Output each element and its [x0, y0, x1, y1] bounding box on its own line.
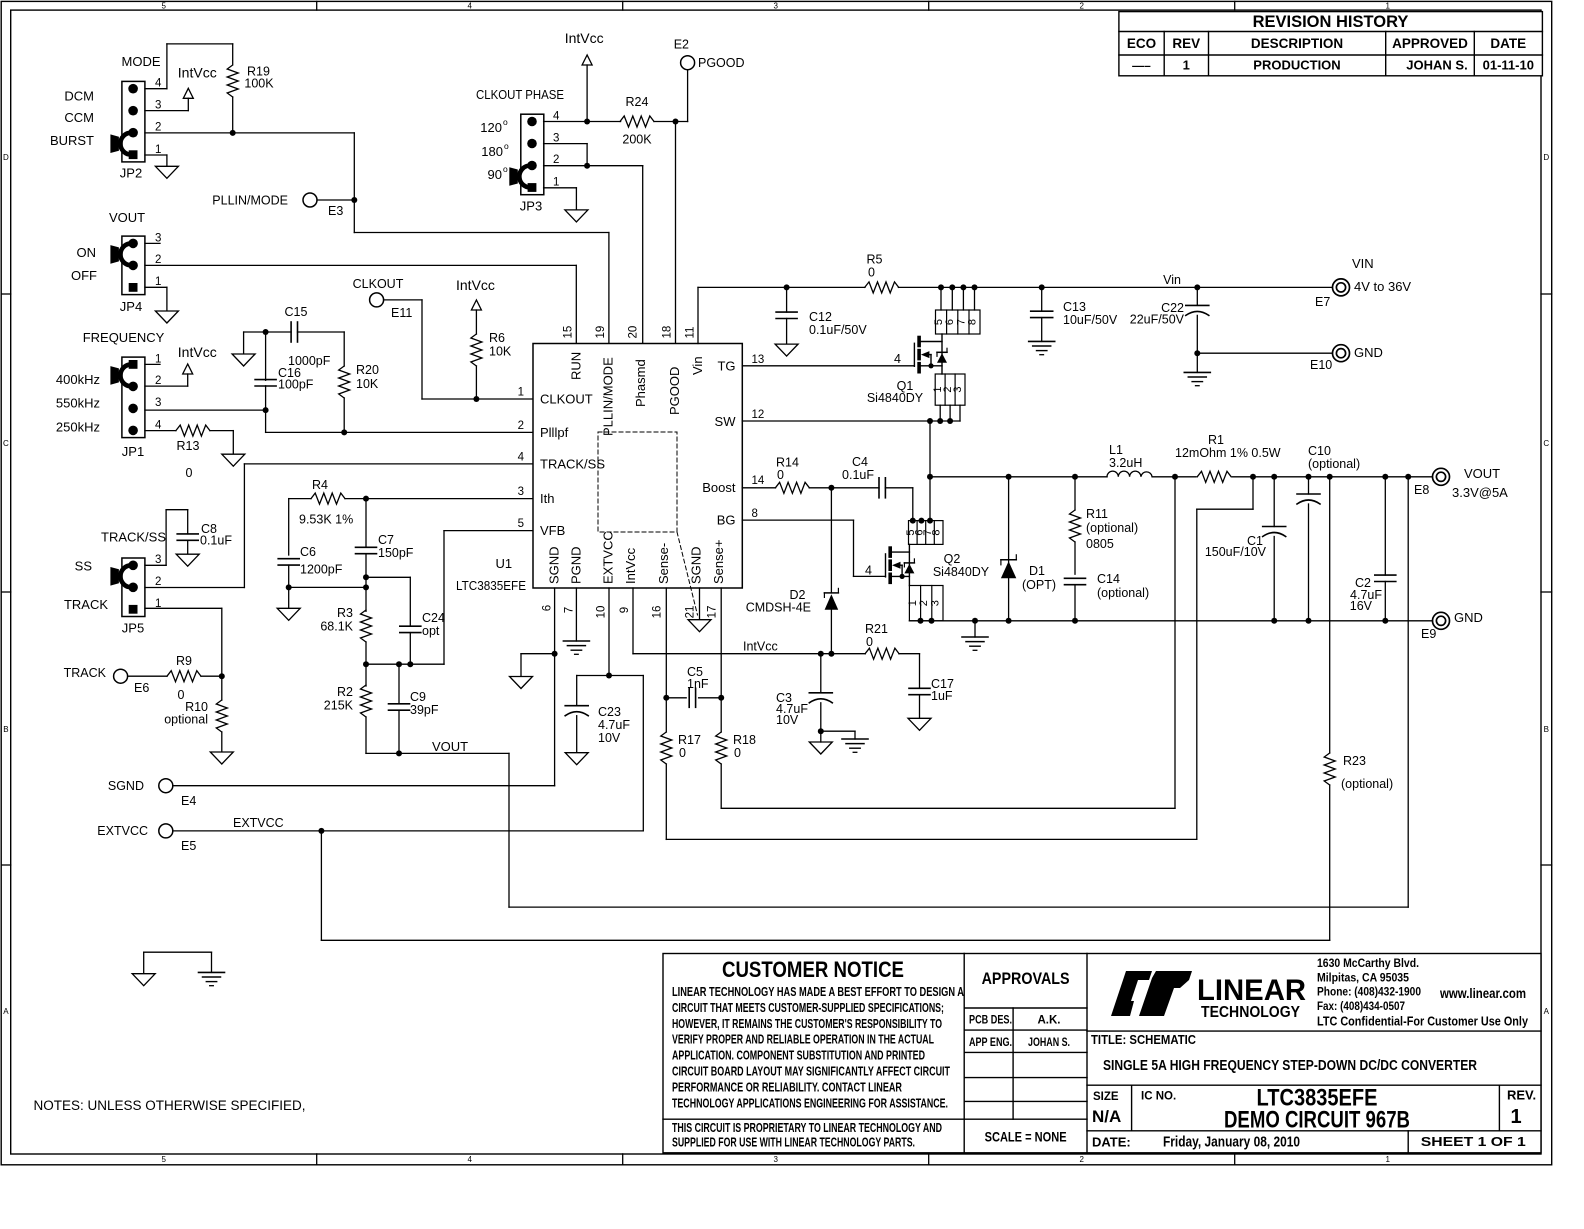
svg-text:100K: 100K [244, 77, 274, 91]
svg-text:1: 1 [155, 144, 161, 156]
svg-text:CIRCUIT THAT MEETS CUSTOMER-SU: CIRCUIT THAT MEETS CUSTOMER-SUPPLIED SPE… [672, 1000, 944, 1015]
op-amp U1 LTC3835EFE (controller IC) [456, 326, 765, 619]
ground at SGND [510, 677, 533, 689]
svg-text:C7: C7 [378, 533, 394, 547]
junction R24/PGOOD [673, 119, 679, 125]
ground at JP4 pin1 [155, 311, 178, 323]
svg-text:JP4: JP4 [120, 299, 142, 314]
ground tie symbol [132, 952, 224, 986]
terminal E7 VIN [1315, 256, 1411, 309]
revision history table [1119, 12, 1543, 76]
svg-text:Plllpf: Plllpf [540, 425, 569, 440]
svg-text:4: 4 [553, 110, 560, 122]
wire R6 to CLKOUT net [475, 366, 477, 399]
svg-text:9.53K 1%: 9.53K 1% [299, 513, 353, 527]
svg-text:SHEET 1 OF 1: SHEET 1 OF 1 [1421, 1134, 1526, 1149]
svg-text:1: 1 [1510, 1106, 1521, 1128]
junction R6/CLKOUT [473, 396, 479, 402]
svg-text:R2: R2 [337, 685, 353, 699]
wire U1 Sense- pin 16 [665, 588, 667, 732]
svg-text:LTC3835EFE: LTC3835EFE [456, 578, 526, 593]
junction Boost/D2 [828, 485, 834, 491]
svg-text:0: 0 [777, 468, 784, 482]
wire U1 TG pin 13 to Q1 gate [742, 365, 914, 367]
wire JP1 pin1 stub [145, 363, 160, 365]
junction earth at PGND rail [972, 618, 978, 624]
svg-text:LINEAR TECHNOLOGY HAS MADE A B: LINEAR TECHNOLOGY HAS MADE A BEST EFFORT… [672, 984, 964, 999]
junction R11/C14 bottom [1072, 618, 1078, 624]
svg-text:C13: C13 [1063, 300, 1086, 314]
wire U1 EXTVCC pin 10 [608, 588, 610, 676]
svg-text:E9: E9 [1421, 627, 1436, 641]
capacitor C17 1uF [909, 677, 954, 718]
svg-text:3: 3 [773, 1155, 778, 1164]
resistor R1 12mOhm 1% 0.5W [1175, 433, 1281, 482]
junction SW [927, 418, 933, 424]
wire R14 to C4 [809, 487, 879, 489]
svg-text:39pF: 39pF [410, 703, 439, 717]
svg-text:(optional): (optional) [1308, 457, 1360, 471]
svg-text:BG: BG [717, 513, 736, 528]
connector JP2 (MODE) [50, 54, 162, 181]
svg-text:4.7uF: 4.7uF [598, 718, 630, 732]
svg-text:REV.: REV. [1507, 1087, 1536, 1102]
svg-text:16: 16 [652, 606, 664, 619]
ground at JP3 pin1 [565, 210, 588, 222]
svg-text:VOUT: VOUT [1464, 466, 1500, 481]
svg-text:EXTVCC: EXTVCC [601, 531, 616, 584]
junction R19/MODE [230, 130, 236, 136]
svg-text:Milpitas, CA 95035: Milpitas, CA 95035 [1317, 970, 1409, 984]
svg-text:VOUT: VOUT [432, 739, 468, 754]
wire JP2 pin3 to IntVcc [145, 110, 188, 112]
junction Sense- jog [1250, 474, 1256, 480]
svg-text:PGOOD: PGOOD [698, 56, 745, 70]
wire U1 SGND pin 6 [554, 588, 556, 786]
svg-text:20: 20 [628, 326, 640, 339]
svg-text:16V: 16V [1350, 599, 1373, 613]
svg-text:E6: E6 [134, 681, 149, 695]
ground at C15 left [232, 354, 255, 366]
svg-text:o: o [504, 141, 509, 151]
svg-text:21: 21 [685, 606, 697, 619]
wire E3 to MODE net [317, 199, 354, 201]
IntVcc symbol above R6 [456, 277, 495, 334]
junction E10 branch [1194, 350, 1200, 356]
svg-text:JOHAN S.: JOHAN S. [1028, 1037, 1070, 1049]
wire VOUT sense to output rail [399, 752, 509, 754]
svg-text:C24: C24 [422, 611, 445, 625]
svg-text:TITLE: SCHEMATIC: TITLE: SCHEMATIC [1091, 1032, 1197, 1047]
junction SGND arrow branch [552, 651, 558, 657]
junction C16 top [263, 329, 269, 335]
svg-text:SIZE: SIZE [1093, 1091, 1119, 1103]
wire R4 left to C6 [289, 498, 311, 500]
wire U1 Sense+ pin 17 [720, 588, 722, 732]
junction C3 ground node [818, 728, 824, 734]
svg-text:3: 3 [155, 397, 161, 409]
svg-text:10V: 10V [598, 731, 621, 745]
wire U1 Vin pin 11 to VIN rail [697, 287, 699, 343]
wire JP4 pin1 to ground [145, 286, 167, 288]
svg-text:12: 12 [752, 409, 765, 421]
wire JP4 pin3 stub [145, 242, 160, 244]
EXTVCC branch rail [577, 675, 644, 677]
wire C8 to ground [187, 540, 189, 554]
svg-text:VFB: VFB [540, 523, 565, 538]
svg-text:0805: 0805 [1086, 537, 1114, 551]
svg-text:12mOhm 1% 0.5W: 12mOhm 1% 0.5W [1175, 446, 1281, 460]
earth ground at C13 [1029, 340, 1055, 342]
ground at C8 [176, 554, 199, 566]
wire E5 EXTVCC rail [173, 830, 644, 832]
svg-text:TRACK/SS: TRACK/SS [540, 456, 605, 471]
svg-text:BURST: BURST [50, 133, 94, 148]
IntVcc symbol at JP2 pin3 [178, 65, 217, 111]
svg-text:E7: E7 [1315, 295, 1330, 309]
junction D1 [1006, 474, 1012, 480]
svg-text:0: 0 [186, 466, 193, 480]
svg-text:Vin: Vin [690, 356, 705, 375]
svg-text:15: 15 [563, 326, 575, 339]
junction Sense+ branch [1172, 474, 1178, 480]
svg-text:0.1uF: 0.1uF [842, 468, 874, 482]
svg-text:(optional): (optional) [1086, 521, 1138, 535]
svg-text:6: 6 [542, 605, 554, 611]
capacitor C16 100pF [255, 332, 314, 432]
resistor R10 optional [164, 676, 227, 732]
wire to E10 [1197, 352, 1332, 354]
svg-text:C14: C14 [1097, 572, 1120, 586]
wire R10 to ground [221, 732, 223, 752]
svg-text:2: 2 [155, 121, 161, 133]
svg-text:DATE: DATE [1490, 36, 1526, 51]
capacitor C2 4.7uF 16V [1350, 477, 1396, 621]
capacitor C9 39pF [389, 664, 439, 753]
svg-text:68.1K: 68.1K [320, 620, 353, 634]
junction C22 [1194, 284, 1200, 290]
svg-text:E10: E10 [1310, 358, 1332, 372]
svg-text:TG: TG [717, 359, 735, 374]
svg-text:R9: R9 [176, 654, 192, 668]
svg-text:SGND: SGND [689, 546, 704, 584]
wire R17 to Sense- rail [665, 764, 667, 839]
svg-text:JP3: JP3 [520, 199, 542, 214]
svg-text:B: B [1544, 725, 1549, 734]
svg-text:Phone: (408)432-1900: Phone: (408)432-1900 [1317, 985, 1421, 999]
svg-text:HOWEVER, IT REMAINS THE CUSTOM: HOWEVER, IT REMAINS THE CUSTOMER'S RESPO… [672, 1016, 942, 1031]
svg-text:4: 4 [467, 1, 472, 10]
svg-text:IntVcc: IntVcc [623, 547, 638, 584]
junction C1 [1271, 474, 1277, 480]
svg-text:TRACK: TRACK [64, 666, 107, 680]
wire C4 to SW [885, 487, 912, 489]
svg-text:2: 2 [1079, 1155, 1084, 1164]
svg-text:1: 1 [1385, 1, 1390, 10]
svg-text:(OPT): (OPT) [1022, 578, 1056, 592]
svg-text:TECHNOLOGY: TECHNOLOGY [1201, 1004, 1301, 1021]
svg-text:1200pF: 1200pF [300, 563, 343, 577]
svg-text:JP1: JP1 [122, 444, 144, 459]
wire R24 to E2/PGOOD [654, 121, 688, 123]
svg-text:N/A: N/A [1092, 1107, 1121, 1126]
svg-text:Sense-: Sense- [656, 543, 671, 584]
resistor R19 100K [227, 65, 274, 98]
ground at R13 [222, 454, 245, 466]
svg-text:IntVcc: IntVcc [565, 30, 604, 46]
wire R18 to Sense+ rail [720, 764, 722, 808]
svg-text:5: 5 [518, 518, 524, 530]
svg-text:SUPPLIED FOR USE WITH LINEAR T: SUPPLIED FOR USE WITH LINEAR TECHNOLOGY … [672, 1134, 915, 1149]
svg-text:IntVcc: IntVcc [743, 640, 778, 654]
svg-text:13: 13 [752, 354, 765, 366]
wire R23 branch [1329, 477, 1331, 753]
svg-text:R17: R17 [678, 733, 701, 747]
svg-text:SGND: SGND [108, 779, 144, 793]
svg-text:4: 4 [894, 352, 901, 366]
svg-text:JP2: JP2 [120, 166, 142, 181]
transistor Q1 Si4840DY (top MOSFET) [867, 284, 980, 421]
svg-text:C: C [3, 439, 9, 448]
ground at R10 [210, 752, 233, 764]
wire C15 left / ground branch [244, 331, 292, 333]
svg-text:Si4840DY: Si4840DY [933, 565, 990, 579]
svg-text:SCALE = NONE: SCALE = NONE [985, 1129, 1067, 1145]
wire C6 bottom [288, 565, 290, 608]
resistor R20 10K [339, 363, 379, 398]
svg-text:0.1uF/50V: 0.1uF/50V [809, 323, 867, 337]
wire TRACK/SS to C8 [145, 564, 166, 566]
junction IntVcc at JP3 pin4 [584, 119, 590, 125]
terminal E11 CLKOUT [353, 277, 413, 320]
wire L1 to R1 [1152, 476, 1196, 478]
svg-text:4: 4 [155, 78, 162, 90]
svg-text:11: 11 [685, 327, 697, 339]
svg-text:250kHz: 250kHz [56, 420, 100, 435]
junction Ith/C7 [363, 496, 369, 502]
svg-text:1: 1 [553, 177, 559, 189]
diode D2 CMDSH-4E [746, 488, 839, 654]
svg-text:D1: D1 [1029, 564, 1045, 578]
svg-text:3: 3 [553, 132, 559, 144]
svg-text:3: 3 [952, 387, 964, 393]
svg-text:o: o [503, 164, 508, 174]
svg-text:LTC Confidential-For Customer: LTC Confidential-For Customer Use Only [1317, 1014, 1529, 1029]
inductor L1 3.2uH [1107, 443, 1152, 477]
svg-text:R11: R11 [1086, 507, 1108, 521]
svg-text:7: 7 [564, 607, 576, 613]
resistor R21 0 [865, 622, 899, 659]
capacitor C6 1200pF [278, 545, 343, 577]
svg-text:Fax: (408)434-0507: Fax: (408)434-0507 [1317, 999, 1405, 1013]
wire Sense- jog [1252, 477, 1254, 509]
svg-text:18: 18 [662, 326, 674, 339]
wire R2 bottom to VOUT node [365, 717, 367, 753]
svg-text:TRACK: TRACK [64, 597, 108, 612]
capacitor C23 4.7uF 10V [565, 676, 630, 753]
svg-text:400kHz: 400kHz [56, 372, 100, 387]
svg-text:DESCRIPTION: DESCRIPTION [1251, 36, 1343, 51]
connector JP4 (VOUT on/off) [71, 210, 161, 314]
junction R3/VFB [363, 661, 369, 667]
svg-text:A.K.: A.K. [1038, 1015, 1061, 1027]
svg-text:www.linear.com: www.linear.com [1439, 986, 1526, 1001]
svg-text:Vin: Vin [1163, 273, 1181, 287]
svg-text:APP ENG.: APP ENG. [969, 1037, 1012, 1049]
junction JP3 pins 2/3 [584, 163, 590, 169]
wire R9 to node [201, 675, 222, 677]
svg-text:IC NO.: IC NO. [1141, 1090, 1176, 1102]
svg-text:215K: 215K [324, 699, 354, 713]
svg-text:1uF: 1uF [931, 689, 953, 703]
svg-text:0: 0 [734, 746, 741, 760]
wire R4 right to U1 Ith pin 3 [345, 498, 533, 500]
svg-text:CUSTOMER NOTICE: CUSTOMER NOTICE [722, 957, 904, 982]
earth ground at C3 [842, 738, 868, 740]
wire E4 to U1 SGND [173, 785, 555, 787]
svg-text:10: 10 [596, 606, 608, 619]
svg-text:TRACK/SS: TRACK/SS [101, 530, 166, 545]
svg-text:4: 4 [155, 420, 162, 432]
wire C6 node to R3 chain [289, 586, 366, 588]
capacitor C1 150uF/10V [1205, 477, 1286, 621]
svg-text:CLKOUT: CLKOUT [353, 277, 404, 291]
svg-text:3: 3 [518, 486, 524, 498]
junction SW rail [927, 474, 933, 480]
svg-text:Friday, January 08, 2010: Friday, January 08, 2010 [1163, 1134, 1300, 1151]
junction Q2 source pins [918, 618, 924, 624]
svg-text:C12: C12 [809, 310, 832, 324]
capacitor C4 0.1uF [842, 455, 885, 498]
svg-text:150pF: 150pF [378, 546, 414, 560]
svg-text:90: 90 [488, 167, 502, 182]
earth ground at PGND pin [563, 640, 589, 642]
junction C6/ground rail [286, 584, 292, 590]
svg-text:1: 1 [1183, 58, 1190, 73]
svg-text:CLKOUT PHASE: CLKOUT PHASE [476, 87, 564, 102]
svg-text:3.2uH: 3.2uH [1109, 456, 1142, 470]
wire U1 PGND pin 7 to earth [575, 588, 577, 641]
capacitor C12 0.1uF/50V [776, 287, 867, 344]
svg-text:5: 5 [161, 1, 166, 10]
svg-text:VOUT: VOUT [109, 210, 145, 225]
junction C9/VFB [396, 661, 402, 667]
svg-text:CMDSH-4E: CMDSH-4E [746, 601, 811, 615]
svg-text:MODE: MODE [122, 54, 161, 69]
junction C3 [818, 651, 824, 657]
svg-text:E11: E11 [391, 306, 412, 320]
junction JP1 pin3 / C16 [263, 407, 269, 413]
svg-text:2: 2 [155, 254, 161, 266]
svg-text:PRODUCTION: PRODUCTION [1253, 58, 1340, 73]
wire R23 to EXTVCC rail [1329, 785, 1331, 940]
svg-text:8: 8 [931, 529, 943, 535]
resistor R18 0 [716, 732, 756, 764]
svg-text:3: 3 [155, 100, 161, 112]
svg-text:APPROVALS: APPROVALS [982, 969, 1070, 988]
ground at JP2 pin1 [155, 166, 178, 178]
svg-text:Boost: Boost [702, 480, 736, 495]
wire SW rail to L1 [930, 476, 1107, 478]
junction D2 anode [828, 651, 834, 657]
wire JP4 pin2 to U1 RUN pin 15 [145, 264, 576, 266]
svg-text:TECHNOLOGY APPLICATIONS ENGINE: TECHNOLOGY APPLICATIONS ENGINEERING FOR … [672, 1095, 948, 1110]
svg-text:14: 14 [752, 475, 765, 487]
svg-text:R3: R3 [337, 606, 353, 620]
svg-text:VERIFY PROPER AND RELIABLE OPE: VERIFY PROPER AND RELIABLE OPERATION IN … [672, 1032, 934, 1047]
svg-text:Phasmd: Phasmd [633, 359, 648, 407]
svg-text:200K: 200K [622, 133, 652, 147]
svg-text:ON: ON [77, 245, 97, 260]
resistor R23 optional [1324, 753, 1393, 791]
svg-text:ECO: ECO [1127, 36, 1156, 51]
svg-text:Q2: Q2 [944, 552, 961, 566]
svg-text:R1: R1 [1208, 433, 1224, 447]
svg-text:CLKOUT: CLKOUT [540, 392, 593, 407]
junction C6 branch [363, 584, 369, 590]
svg-text:4: 4 [467, 1155, 472, 1164]
diode D1 (OPT) [1001, 477, 1056, 621]
capacitor C14 optional [1065, 572, 1150, 621]
svg-text:22uF/50V: 22uF/50V [1130, 313, 1185, 327]
svg-text:JP5: JP5 [122, 621, 144, 636]
svg-text:SW: SW [715, 414, 737, 429]
PGND rail [909, 620, 1432, 622]
junction EXTVCC [606, 673, 612, 679]
junction C5 left [663, 695, 669, 701]
terminal E6 TRACK [64, 666, 150, 695]
ground at C6 [277, 608, 300, 620]
svg-text:3: 3 [155, 232, 161, 244]
wire U1 SGND pin 21 to ground [699, 588, 701, 620]
junction C2 bottom [1382, 618, 1388, 624]
svg-text:REVISION HISTORY: REVISION HISTORY [1253, 13, 1409, 31]
svg-text:4: 4 [865, 564, 872, 578]
svg-text:EXTVCC: EXTVCC [97, 824, 148, 838]
junction R23 [1327, 474, 1333, 480]
svg-text:4V to 36V: 4V to 36V [1354, 279, 1411, 294]
svg-text:180: 180 [481, 144, 503, 159]
svg-text:R18: R18 [733, 733, 756, 747]
junction C24 branch [363, 574, 369, 580]
svg-text:E4: E4 [181, 794, 196, 808]
svg-text:APPROVED: APPROVED [1392, 36, 1468, 51]
svg-text:19: 19 [595, 326, 607, 339]
terminal E2 PGOOD [674, 37, 745, 70]
capacitor C3 4.7uF 10V [776, 654, 832, 732]
wire SW node down [929, 421, 931, 521]
wire U1 BG pin 8 to Q2 gate [742, 519, 853, 521]
wire R3 bottom to VFB rail [365, 642, 367, 664]
wire to ground arrow [521, 653, 555, 655]
resistor R24 200K [620, 95, 654, 147]
svg-text:C6: C6 [300, 545, 316, 559]
svg-text:FREQUENCY: FREQUENCY [83, 330, 165, 345]
svg-text:A: A [3, 1007, 9, 1016]
svg-text:C15: C15 [285, 305, 308, 319]
capacitor C24 opt [366, 577, 445, 664]
wire JP3 pin1 to ground [544, 187, 577, 189]
svg-text:OFF: OFF [71, 268, 97, 283]
wire C3 node to earth [821, 730, 855, 732]
capacitor C8 0.1uF [177, 522, 232, 548]
svg-text:CCM: CCM [64, 110, 94, 125]
resistor R14 0 [742, 456, 809, 494]
svg-text:APPLICATION. COMPONENT SUBSTI: APPLICATION. COMPONENT SUBSTITUTION AND … [672, 1048, 925, 1063]
svg-text:R13: R13 [177, 439, 200, 453]
junction D1 bottom [1006, 618, 1012, 624]
svg-text:10K: 10K [356, 377, 379, 391]
